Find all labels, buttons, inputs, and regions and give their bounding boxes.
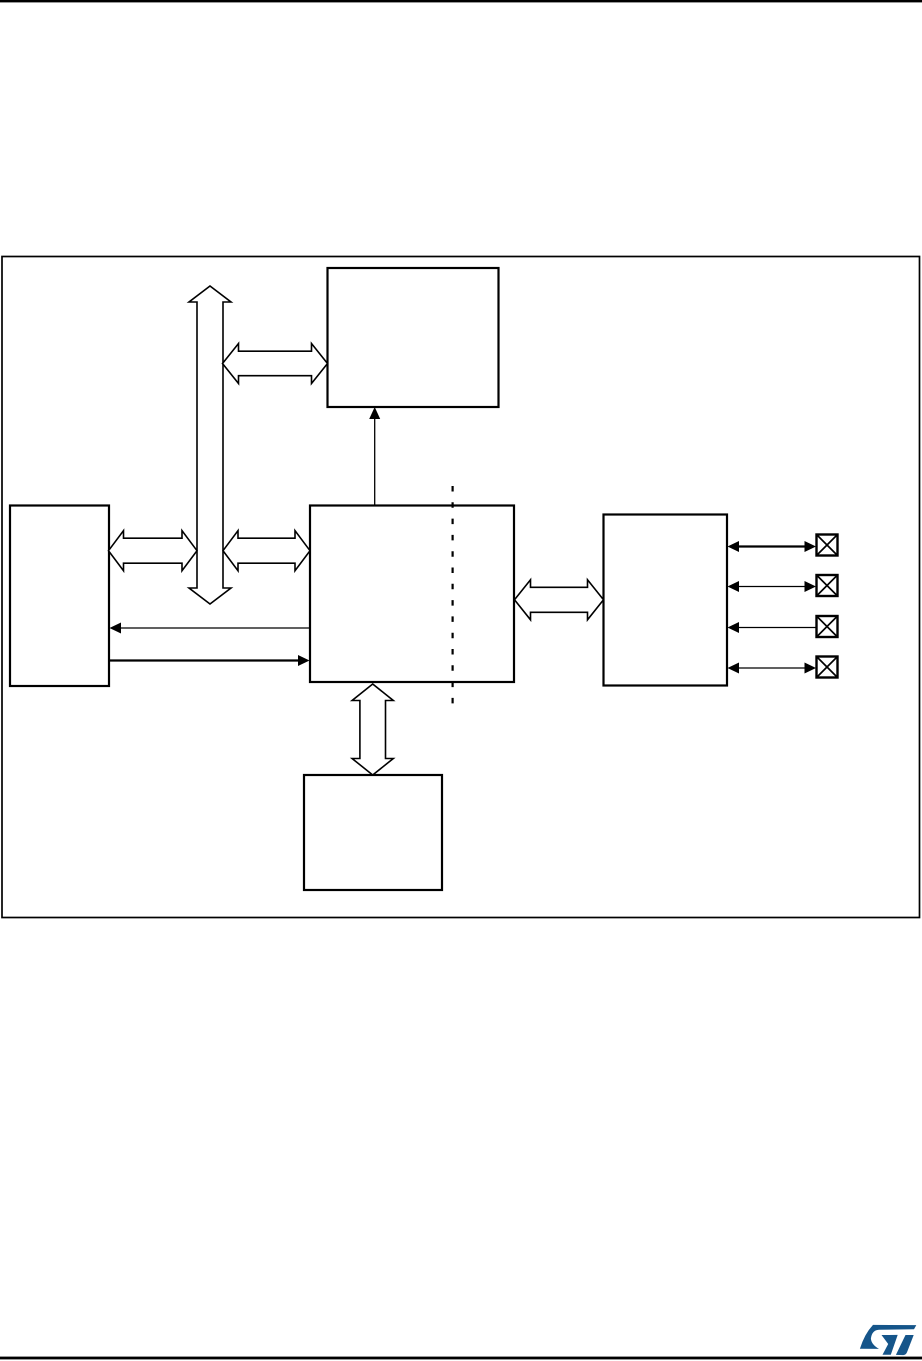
double arrow: vertical bus to top box — [223, 344, 328, 384]
figure frame — [2, 257, 920, 918]
right box — [604, 515, 728, 686]
double arrow: left box to vertical bus — [109, 531, 198, 571]
thin arrow: center box to left box (leftwards) — [110, 623, 311, 634]
big vertical double arrow — [189, 286, 231, 604]
double arrow: vertical bus to center box — [223, 531, 310, 571]
IO pad 1 (crossed square) — [817, 535, 838, 556]
double arrow: center box to right box — [515, 580, 604, 620]
left box — [10, 506, 109, 687]
IO line row 2 (double headed) — [728, 581, 817, 592]
center box — [310, 506, 514, 683]
IO line row 3 (left head only) — [728, 622, 817, 633]
bottom box — [304, 775, 442, 890]
IO pad 4 (crossed square) — [817, 657, 838, 678]
IO line row 4 (double headed) — [728, 663, 817, 674]
top header rule — [0, 0, 922, 2]
thin arrow: center box up to top box — [369, 407, 380, 506]
IO pad 2 (crossed square) — [817, 575, 838, 596]
dashed partition line — [452, 486, 454, 710]
double arrow: center box to bottom box — [352, 684, 393, 775]
thick arrow: left box to center box (rightwards) — [109, 655, 310, 666]
IO pad 3 (crossed square) — [817, 616, 838, 637]
bottom footer rule — [0, 1357, 922, 1360]
top box — [328, 268, 499, 407]
IO line row 1 (thick, double headed) — [728, 541, 817, 552]
ST logo — [860, 1325, 916, 1355]
